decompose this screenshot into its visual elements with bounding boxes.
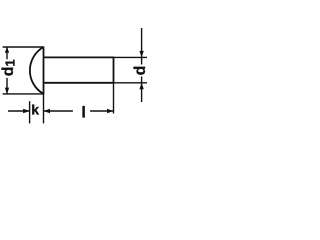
label d1: [0, 59, 15, 78]
extension line top d1: [3, 46, 44, 48]
extension line bottom d1: [3, 93, 44, 95]
svg-text:l: l: [81, 104, 85, 121]
label d: [132, 65, 145, 77]
rivet head rim line: [43, 47, 45, 95]
extension line l right / shank end extended: [113, 84, 115, 114]
shank bottom line: [44, 82, 114, 84]
arrow d1 up: [5, 47, 9, 53]
arrow l left-pointing: [44, 109, 51, 113]
arrow k right-pointing: [23, 109, 30, 113]
arrow d up-pointing: [139, 83, 143, 90]
shank end line: [113, 57, 115, 84]
shank top line: [44, 56, 114, 58]
extension line k right / rim extended: [43, 95, 45, 124]
arrow l right-pointing: [107, 109, 114, 113]
dimension line d: [141, 28, 143, 102]
dimension line d1: [6, 47, 8, 94]
dimension line l left segment: [44, 110, 73, 112]
extension line d top: [114, 56, 148, 58]
extension line k left: [29, 101, 31, 123]
dimension line l right segment: [90, 110, 113, 112]
svg-text:k: k: [31, 101, 39, 117]
svg-text:d1: d1: [0, 59, 17, 76]
arrow d down-pointing: [139, 51, 143, 58]
rivet head dome arc: [30, 47, 44, 94]
arrow d1 down: [5, 88, 9, 94]
extension line d bottom: [114, 82, 148, 84]
svg-text:d: d: [132, 66, 149, 76]
dimension line k left tail: [8, 110, 30, 112]
